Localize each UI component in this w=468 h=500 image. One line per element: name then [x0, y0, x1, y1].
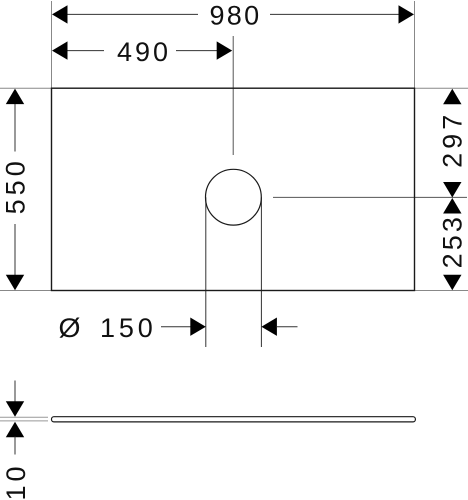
dimension 490 line [67, 50, 218, 52]
dimension 980 line [67, 13, 400, 15]
dimension 297 bottom arrow [443, 182, 461, 198]
wire: vertical extension line x=51.5 above plate [51, 1, 53, 88]
dimension 490 right arrow [217, 41, 233, 59]
wire: vertical extension line x=414.5 above plate [414, 1, 416, 88]
wire: bottom extension line y=290.5 left of plate [0, 290, 52, 292]
dimension 550 bottom arrow [6, 275, 24, 291]
svg-text:Ø: Ø [59, 313, 81, 343]
dimension 490 left arrow [52, 41, 68, 59]
wire: bottom extension line y=290.5 right of plate [415, 290, 468, 292]
svg-text:490: 490 [117, 37, 168, 67]
dimension 297 top arrow [443, 89, 461, 105]
dimension diameter 150 right arrow [261, 318, 277, 336]
wire: plate-thickness lower extension line [0, 420, 48, 422]
wire: hole right tangent extension line [260, 197, 262, 347]
dimension 253 bottom arrow [443, 275, 461, 291]
dimension 10 upper arrow [6, 401, 24, 417]
wire: hole left tangent extension line [205, 197, 207, 347]
faucet hole circle [206, 169, 262, 225]
dimension 980 left arrow [52, 5, 68, 23]
dimension 10 lower arrow [6, 422, 24, 438]
wire: top extension line y=88.2 left of plate [0, 87, 52, 89]
dimension 980 right arrow [399, 5, 415, 23]
wire: top extension line y=88.2 right of plate [415, 87, 468, 89]
dimension diameter 150 leader line left [161, 326, 191, 328]
svg-text:550: 550 [1, 161, 31, 214]
wire: vertical extension line x=233.2 from 490 dim to hole [232, 36, 234, 155]
wire: plate-thickness upper extension line [0, 416, 48, 418]
dimension diameter 150 leader line right [277, 326, 298, 328]
dimension diameter 150 left arrow [190, 318, 206, 336]
svg-text:297: 297 [438, 115, 468, 168]
wire: hole centre line to right side [273, 196, 467, 198]
dimension 550 top arrow [6, 89, 24, 105]
dimension 10 line below [14, 437, 16, 455]
svg-text:150: 150 [100, 313, 153, 343]
svg-text:253: 253 [438, 217, 468, 268]
console plate outline (top view) [52, 88, 415, 290]
dimension 10 line above [14, 381, 16, 403]
svg-text:980: 980 [210, 1, 260, 31]
dimension 253 top arrow [443, 198, 461, 214]
dimension 550 line [14, 104, 16, 276]
console plate side view [52, 417, 416, 422]
